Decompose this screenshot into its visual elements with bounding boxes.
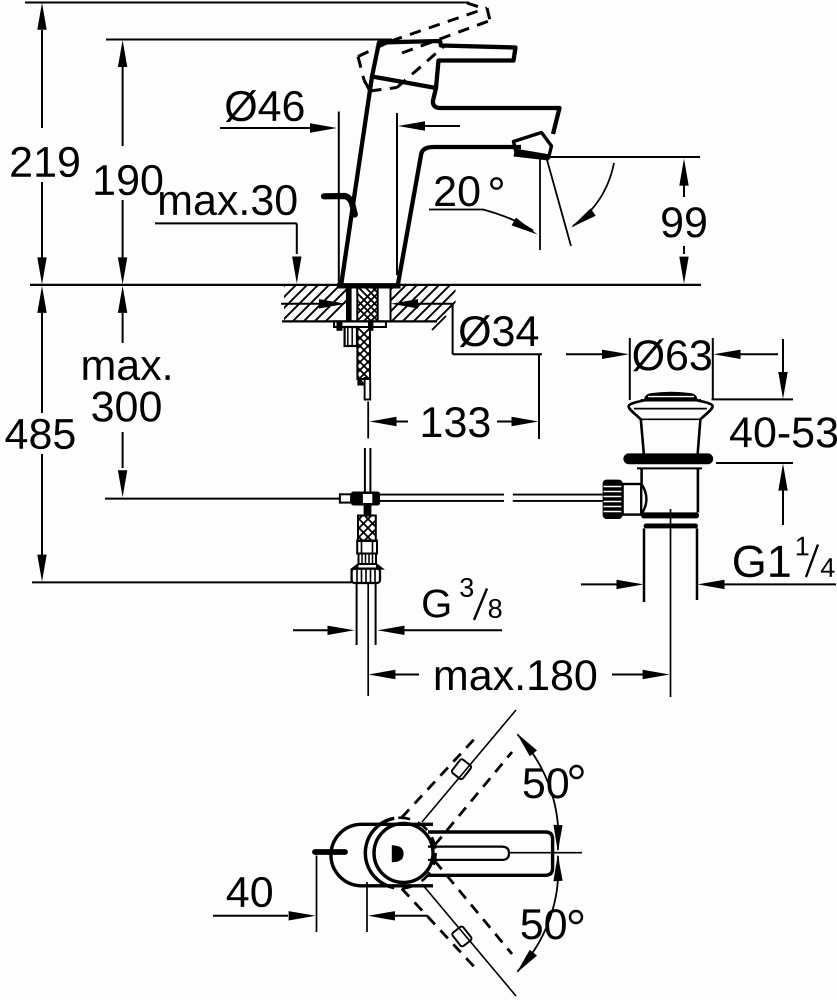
svg-text:40: 40 bbox=[226, 869, 274, 917]
svg-text:Ø46: Ø46 bbox=[224, 83, 305, 131]
svg-text:G: G bbox=[421, 582, 452, 626]
svg-text:max.180: max.180 bbox=[433, 652, 598, 700]
svg-text:190: 190 bbox=[92, 157, 164, 205]
svg-text:219: 219 bbox=[9, 139, 81, 187]
svg-text:50: 50 bbox=[522, 760, 570, 808]
svg-text:300: 300 bbox=[91, 383, 163, 431]
svg-text:max.30: max.30 bbox=[157, 177, 298, 225]
svg-text:4: 4 bbox=[820, 553, 835, 583]
svg-text:1: 1 bbox=[795, 531, 810, 561]
svg-text:133: 133 bbox=[420, 399, 492, 447]
svg-text:485: 485 bbox=[5, 411, 77, 459]
svg-text:3: 3 bbox=[459, 573, 474, 603]
svg-text:Ø63: Ø63 bbox=[632, 332, 713, 380]
svg-text:G1: G1 bbox=[732, 536, 792, 587]
svg-text:20: 20 bbox=[433, 168, 481, 216]
svg-text:8: 8 bbox=[488, 594, 503, 624]
svg-text:Ø34: Ø34 bbox=[458, 308, 539, 356]
svg-text:50: 50 bbox=[520, 901, 568, 949]
svg-text:99: 99 bbox=[660, 199, 708, 247]
svg-text:40-53: 40-53 bbox=[729, 409, 837, 457]
